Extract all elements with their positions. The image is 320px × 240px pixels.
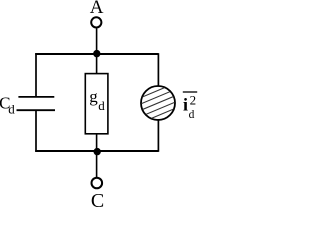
wire gd box to bottom junction — [96, 134, 98, 152]
capacitor C_d bottom plate — [17, 109, 56, 111]
junction top node — [93, 50, 100, 57]
wire A terminal to top rail — [96, 29, 98, 55]
svg-text:d: d — [8, 101, 15, 116]
svg-text:d: d — [98, 98, 105, 113]
label id^2 noise current with overline — [183, 92, 197, 121]
wire left rail lower — [35, 110, 37, 152]
svg-text:2: 2 — [190, 93, 197, 108]
wire left rail upper — [35, 53, 37, 97]
label gd — [89, 87, 105, 113]
wire bottom rail — [35, 150, 158, 152]
terminal A (open circle) — [91, 17, 101, 27]
wire top junction to gd box — [96, 54, 98, 74]
label Cd — [0, 94, 15, 117]
terminal C (open circle) — [92, 178, 103, 189]
noise current source (hatched circle) — [134, 68, 182, 139]
svg-text:C: C — [91, 190, 104, 207]
capacitor C_d top plate — [18, 96, 54, 98]
wire top rail — [35, 53, 158, 55]
wire right rail lower — [157, 119, 159, 152]
wire right rail upper — [157, 53, 159, 87]
wire bottom junction to terminal C — [96, 152, 98, 177]
svg-text:g: g — [89, 87, 98, 106]
svg-text:d: d — [189, 109, 195, 121]
svg-text:i: i — [183, 94, 188, 114]
junction bottom node — [94, 148, 101, 155]
conductance box g_d — [85, 74, 108, 134]
svg-text:A: A — [90, 0, 104, 18]
